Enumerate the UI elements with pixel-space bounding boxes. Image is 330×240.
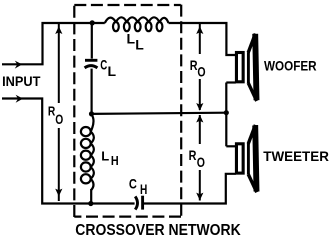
wire woofer bottom terminal (226, 81, 236, 83)
svg-text:L: L (135, 37, 144, 53)
svg-text:C: C (100, 57, 107, 73)
wire tweeter top terminal (226, 145, 236, 147)
inductor L_H loop 2 (81, 139, 91, 148)
inductor L_L loop 1 (113, 22, 119, 31)
wire C_L top stem (91, 23, 93, 59)
R_O woofer measure arrow (199, 24, 201, 110)
inductor L_H loop 5 (81, 174, 91, 183)
svg-text:L: L (108, 63, 117, 79)
wire middle rail (92, 113, 227, 114)
wire C_L bottom stem to middle node (90, 69, 92, 114)
svg-text:H: H (111, 154, 119, 168)
node A (top rail junction) (90, 20, 95, 25)
svg-text:L: L (127, 31, 136, 47)
inductor L_H loop 1 (81, 127, 91, 136)
svg-text:C: C (129, 176, 137, 192)
svg-text:CROSSOVER NETWORK: CROSSOVER NETWORK (75, 222, 240, 239)
wire input bottom to bottom rail (left of C_H) (2, 99, 135, 204)
R_O left measure arrow (58, 24, 60, 201)
node D (speaker mid junction) (224, 110, 229, 115)
wire rail right of L_L to woofer top terminal (169, 23, 236, 55)
svg-text:INPUT: INPUT (2, 73, 41, 89)
inductor L_H loop 3 (81, 151, 91, 160)
wire bottom rail right of C_H to tweeter bottom terminal (144, 174, 236, 204)
svg-text:H: H (140, 181, 147, 197)
svg-text:L: L (101, 149, 109, 164)
svg-text:TWEETER: TWEETER (263, 148, 329, 164)
R_O tweeter measure arrow (199, 115, 201, 201)
svg-text:WOOFER: WOOFER (264, 58, 317, 74)
svg-text:O: O (55, 111, 63, 127)
speaker tweeter (236, 125, 256, 192)
inductor L_L loop 2 (124, 22, 130, 31)
inductor L_L humps (105, 17, 169, 23)
wire L_H bottom stem (90, 189, 92, 204)
svg-text:R: R (189, 147, 197, 163)
speaker woofer (236, 34, 256, 101)
svg-text:O: O (197, 154, 205, 170)
inductor L_L loop 4 (146, 22, 152, 31)
inductor L_L loop 5 (157, 22, 163, 31)
inductor L_H humps (91, 114, 94, 190)
wire input top to rail (left of L_L) (2, 23, 105, 64)
node C (bottom rail junction) (88, 201, 93, 206)
input arrow bottom (16, 95, 23, 103)
wire woofer-bottom / junction / tweeter-top vertical (225, 83, 227, 147)
capacitor C_H (135, 196, 142, 210)
node B (middle left junction) (89, 111, 94, 116)
dashed box (crossover network boundary) (74, 5, 181, 217)
capacitor C_L (85, 60, 98, 68)
svg-text:O: O (197, 63, 205, 79)
inductor L_L loop 3 (135, 22, 141, 31)
input arrow top (15, 61, 22, 69)
inductor L_H loop 4 (81, 162, 91, 171)
